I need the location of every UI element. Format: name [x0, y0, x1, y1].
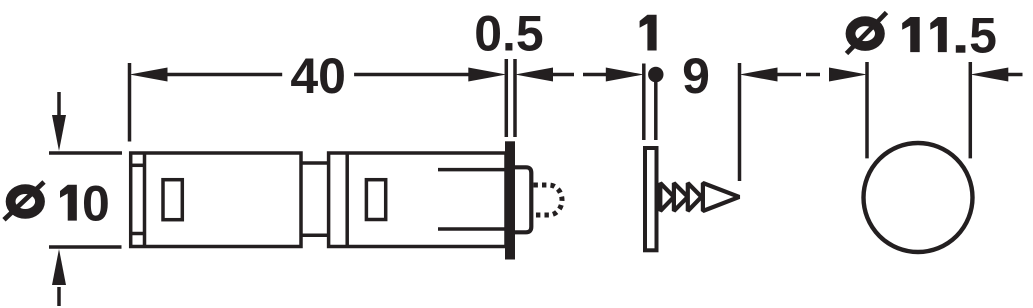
mid neck top line [301, 161, 329, 165]
extension line plate left face [642, 64, 646, 141]
arrowhead 40 right / 0.5 left [468, 68, 506, 82]
catch body section 1 outline [131, 153, 301, 247]
piston top line [438, 168, 505, 172]
dim 11.5 right arrow tail [1008, 73, 1023, 77]
counter plate side view [645, 148, 657, 250]
Ø10 bottom dim line [57, 287, 61, 306]
svg-text:0: 0 [82, 176, 110, 232]
mid neck bottom line [301, 233, 329, 237]
screw tip triangle [703, 183, 739, 211]
body1 end cap line [143, 153, 147, 247]
svg-text:0.5: 0.5 [474, 5, 544, 61]
body2 window [366, 180, 385, 220]
screw thread chevron 1 [660, 183, 674, 211]
piston bottom line [438, 227, 505, 231]
arrowhead 11.5 right [970, 68, 1008, 82]
mounting flange (solid bar) [505, 141, 515, 259]
arrowhead 0.5 right [515, 68, 553, 82]
extension line flange left face [505, 59, 509, 137]
body1 cap tick bottom [131, 232, 145, 236]
body1 cap tick top [131, 164, 145, 168]
counter plate front view circle [864, 143, 973, 252]
Ø10 top dim line [57, 92, 61, 116]
diameter symbol of 11.5: ring [851, 21, 880, 46]
extension line body left end [128, 63, 132, 142]
extension line circle right tangent [969, 62, 973, 158]
arrowhead 11.5 left [829, 68, 867, 82]
screw thread chevron 3 [688, 183, 702, 211]
Ø10 top extension line [49, 151, 122, 155]
dim text 1 (plate thickness) [640, 15, 657, 51]
dim 0.5 right arrow tail [553, 73, 575, 77]
diameter symbol of 11.5: slash [847, 13, 887, 54]
arrowhead Ø10 down [52, 115, 66, 151]
dim 40 line left segment [167, 73, 282, 77]
arrowhead 40 left [130, 68, 168, 82]
extension line plate right face [654, 74, 658, 140]
extension line screw tip [738, 63, 742, 181]
body1 window [163, 180, 182, 220]
svg-text:5: 5 [969, 8, 997, 64]
body2 cap line [345, 153, 349, 247]
arrowhead 9 right [740, 68, 778, 82]
svg-text:9: 9 [682, 48, 710, 104]
dimension dot plate right [648, 67, 663, 82]
extension line flange right face [513, 59, 517, 137]
dim 1 left arrow tail [583, 73, 606, 77]
diameter symbol of 10: ring [11, 189, 40, 214]
dim text 11.5 digit 1a [902, 17, 920, 52]
diameter symbol of 10: slash [4, 182, 44, 220]
dim 9 arrow tail [777, 73, 801, 77]
arrowhead 1 left [606, 68, 644, 82]
dim text 11.5 period [956, 45, 966, 53]
arrowhead Ø10 up [52, 249, 66, 285]
dim text 10 digit 1 [60, 185, 77, 221]
catch body section 2 outline [329, 153, 506, 247]
Ø10 bottom extension line [49, 245, 122, 249]
extension line circle left tangent [865, 62, 869, 158]
dim 40 line right segment [354, 73, 469, 77]
svg-text:40: 40 [290, 48, 346, 104]
dim text 11.5 digit 1b [930, 17, 946, 52]
magnet housing [515, 167, 531, 232]
dim line middle dash [806, 73, 820, 77]
screw thread chevron 2 [674, 183, 688, 211]
dashed magnet protrusion [534, 185, 563, 215]
